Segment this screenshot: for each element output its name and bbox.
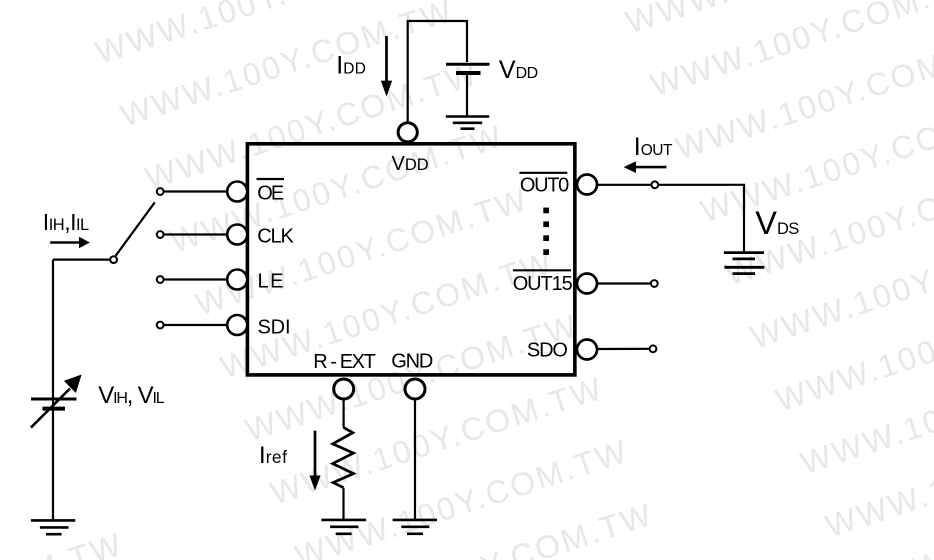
- terminal CLK: [157, 231, 164, 238]
- wire SDI: [164, 324, 227, 326]
- ground under resistor: [321, 520, 366, 534]
- wire LE: [164, 278, 227, 280]
- terminal OE: [157, 188, 164, 195]
- svg-text:CLK: CLK: [257, 225, 294, 247]
- switch blade: [116, 202, 155, 256]
- wire OUT0 to VDS: [598, 185, 744, 252]
- ground left: [31, 520, 75, 534]
- chip U1 body: [247, 144, 574, 375]
- svg-text:SDO: SDO: [527, 339, 568, 361]
- battery VDD plate short: [456, 71, 481, 75]
- wire GND to ground: [414, 400, 416, 520]
- ground under battery: [446, 117, 489, 129]
- pin OUT15 circle: [577, 274, 597, 294]
- overline OUT0: [519, 172, 567, 174]
- wire R-EXT to resistor: [343, 400, 345, 428]
- battery VDD plate long: [446, 63, 490, 66]
- switch pivot terminal: [110, 256, 117, 263]
- dotted line outputs: [543, 208, 549, 255]
- ground under GND: [393, 520, 437, 534]
- pin CLK circle: [227, 225, 247, 245]
- resistor R-EXT zigzag: [333, 427, 354, 487]
- pin LE circle: [227, 270, 247, 290]
- current arrow IDD: [385, 36, 388, 82]
- pin VDD top circle: [398, 123, 417, 142]
- svg-text:SDI: SDI: [258, 317, 291, 339]
- source VIH plate long: [31, 398, 77, 401]
- svg-text:OUT15: OUT15: [513, 273, 573, 295]
- battery VDS plates: [724, 253, 764, 274]
- wire CLK: [164, 233, 227, 235]
- overline OUT15: [513, 269, 571, 271]
- wire to switch pivot: [53, 259, 110, 261]
- svg-text:GND: GND: [391, 351, 433, 373]
- svg-text:VDD: VDD: [392, 153, 429, 175]
- pin GND circle: [405, 379, 425, 399]
- terminal SDO: [650, 345, 657, 352]
- wire VDD pin up: [408, 21, 467, 123]
- overline OE: [257, 178, 285, 180]
- terminal SDI: [157, 322, 164, 329]
- pin R-EXT circle: [334, 379, 354, 399]
- current arrow IIH IIL: [50, 241, 79, 244]
- pin OUT0 circle: [577, 175, 597, 195]
- terminal LE: [157, 276, 164, 283]
- svg-text:LE: LE: [258, 271, 284, 293]
- svg-text:OUT0: OUT0: [520, 175, 569, 197]
- source VIH plate short: [43, 407, 66, 411]
- wire OUT15: [598, 282, 651, 284]
- svg-text:Iref: Iref: [259, 442, 287, 469]
- current arrow IOUT: [635, 166, 666, 169]
- wire left vertical: [52, 260, 54, 520]
- wire resistor to ground: [342, 488, 344, 520]
- svg-text:OE: OE: [257, 182, 284, 204]
- pin SDO circle: [577, 340, 597, 360]
- terminal OUT15: [651, 280, 658, 287]
- pin SDI circle: [227, 315, 247, 335]
- wire SDO: [598, 348, 650, 350]
- pin OE circle: [227, 182, 247, 202]
- wire OE: [164, 190, 227, 192]
- wire battery to ground: [466, 75, 468, 116]
- current arrow Iref: [314, 431, 317, 477]
- terminal OUT0: [651, 181, 658, 188]
- svg-text:R - EXT: R - EXT: [313, 351, 376, 373]
- source variable arrow: [31, 389, 70, 428]
